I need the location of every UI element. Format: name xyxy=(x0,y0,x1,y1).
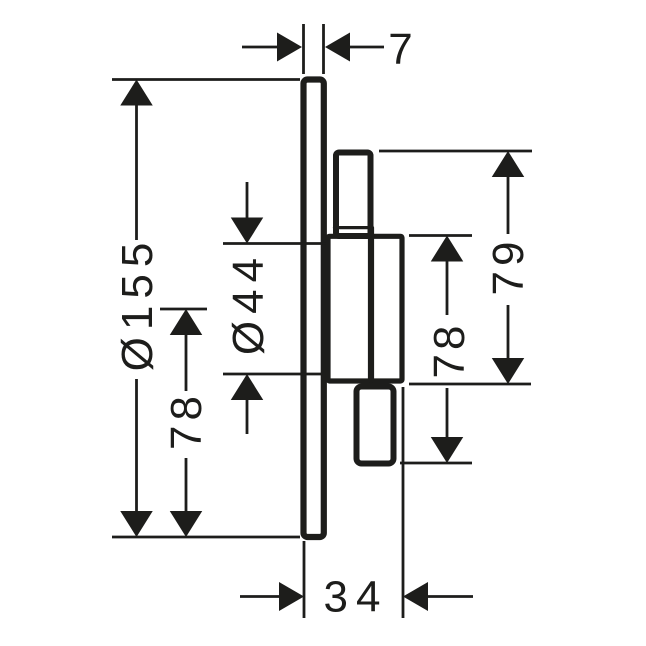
arrow 78 right bottom (down) xyxy=(431,437,464,463)
arrow Ø44 top (down) xyxy=(231,218,264,244)
dim Ø44: bottom extension line xyxy=(223,373,322,376)
dim 7: extension lines above plate xyxy=(302,24,305,74)
dim 34: left extension line xyxy=(303,541,306,618)
dim Ø44: top extension line xyxy=(223,242,326,245)
arrow 78 left top (up) xyxy=(170,309,203,335)
arrow Ø155 top (up) xyxy=(120,80,153,106)
svg-text:78: 78 xyxy=(425,322,474,379)
dim 78 right: bottom extension line (handle bottom) xyxy=(400,462,472,465)
svg-text:78: 78 xyxy=(162,391,211,450)
dim Ø155: bottom extension line xyxy=(112,536,300,539)
arrow Ø155 bottom (down) xyxy=(120,511,153,537)
dim 78 right: dimension line segments xyxy=(446,257,449,315)
arrow dim7 left (right-pointing) xyxy=(277,33,302,62)
bottom handle xyxy=(357,387,394,464)
dim 79: top extension line (handle top) xyxy=(379,150,532,153)
dim Ø155: top extension line xyxy=(112,78,300,81)
dim 78 left: extension line xyxy=(160,308,207,311)
svg-text:79: 79 xyxy=(484,237,533,296)
svg-text:Ø155: Ø155 xyxy=(113,236,162,372)
dim Ø155: dimension line segments xyxy=(135,102,138,240)
arrow Ø44 bottom (up) xyxy=(231,374,264,400)
valve body sleeve xyxy=(328,236,402,381)
dim 78 left: dimension line segments xyxy=(185,331,188,391)
arrow 34 right (left-pointing) xyxy=(403,582,428,611)
dim 34: leader lines xyxy=(240,595,282,598)
top handle base line xyxy=(335,226,373,229)
dim 34: right extension line xyxy=(402,387,405,618)
arrow 78 left bottom (down) xyxy=(170,511,203,537)
svg-text:34: 34 xyxy=(324,573,389,622)
dim 79: dimension line segments xyxy=(507,172,510,234)
arrow 79 top (up) xyxy=(492,151,525,177)
svg-text:Ø44: Ø44 xyxy=(224,251,273,355)
arrow 34 left (right-pointing) xyxy=(279,582,304,611)
top handle xyxy=(336,153,371,237)
arrow 79 bottom (down) xyxy=(492,358,525,384)
escutcheon plate (side view) xyxy=(304,80,324,538)
svg-text:7: 7 xyxy=(388,25,412,74)
arrow dim7 right (left-pointing) xyxy=(325,33,350,62)
internal cartridge line xyxy=(368,228,374,380)
dim 79: bottom extension line (body bottom) xyxy=(409,383,531,386)
dim Ø44: lower dimension line xyxy=(246,396,249,434)
dim 78 right: top extension line (body top) xyxy=(409,234,472,237)
dim Ø44: upper dimension line xyxy=(246,182,249,221)
arrow 78 right top (up) xyxy=(431,236,464,262)
dim 7: leader lines xyxy=(242,46,280,49)
